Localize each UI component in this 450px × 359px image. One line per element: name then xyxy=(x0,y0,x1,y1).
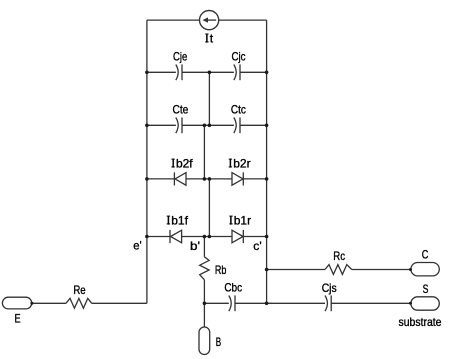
svg-text:Ib2f: Ib2f xyxy=(172,156,194,170)
svg-text:Re: Re xyxy=(73,283,86,297)
svg-text:It: It xyxy=(205,31,213,45)
svg-text:Cjc: Cjc xyxy=(231,49,245,63)
svg-text:E: E xyxy=(15,311,21,325)
svg-text:b': b' xyxy=(190,239,200,253)
svg-text:Ctc: Ctc xyxy=(231,103,246,117)
svg-text:Rc: Rc xyxy=(333,249,345,263)
svg-text:Cjs: Cjs xyxy=(322,281,337,295)
svg-text:Cbc: Cbc xyxy=(224,281,242,295)
svg-text:S: S xyxy=(423,282,429,296)
svg-text:Cje: Cje xyxy=(173,49,188,63)
svg-text:c': c' xyxy=(253,239,261,253)
svg-text:e': e' xyxy=(133,239,141,253)
svg-text:Ib1r: Ib1r xyxy=(229,213,251,227)
svg-text:Ib1f: Ib1f xyxy=(167,213,189,227)
svg-text:Cte: Cte xyxy=(172,103,188,117)
svg-text:Rb: Rb xyxy=(215,263,227,277)
svg-text:C: C xyxy=(422,248,429,262)
svg-text:Ib2r: Ib2r xyxy=(229,156,251,170)
svg-text:substrate: substrate xyxy=(399,315,442,329)
svg-text:B: B xyxy=(216,335,221,349)
